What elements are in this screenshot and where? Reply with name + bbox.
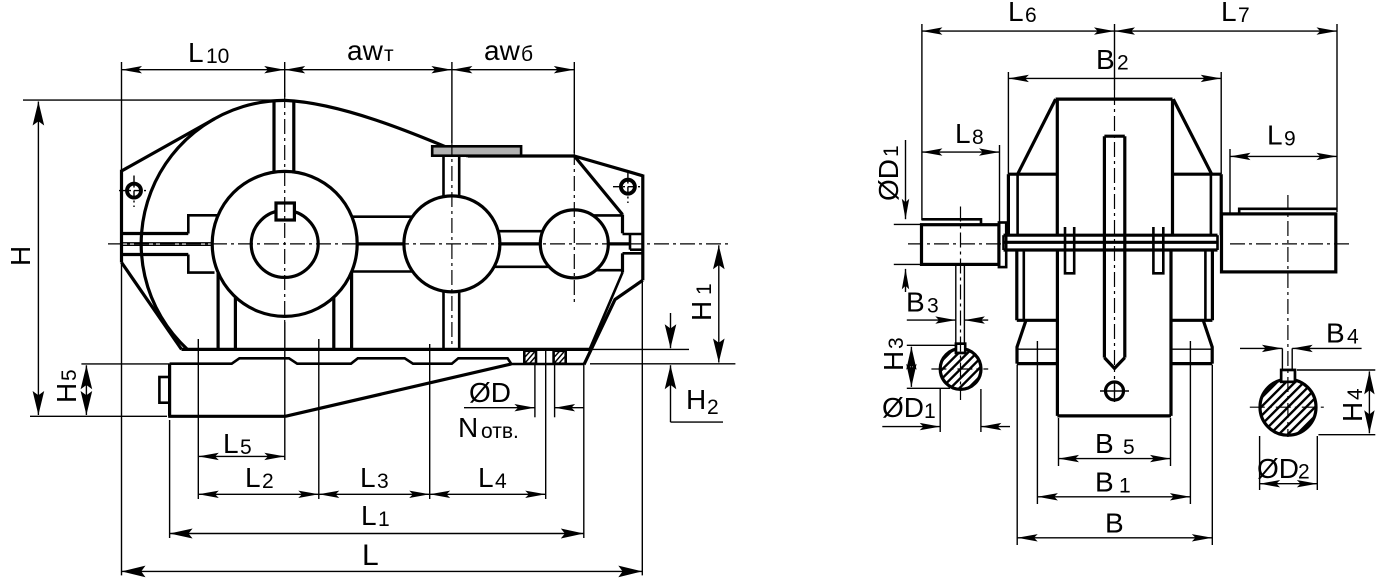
cover right gusset diagonal — [1173, 99, 1211, 174]
bore tangent line top C1-C2 — [352, 215, 413, 218]
cover left gusset diagonal — [1018, 99, 1056, 174]
extension lines right view top — [921, 24, 923, 220]
input key square overlay — [956, 344, 965, 353]
svg-text:ØD: ØD — [469, 377, 511, 408]
small bearing bore circle C3 — [540, 210, 608, 278]
dimension L — [122, 570, 643, 572]
svg-text:ØD: ØD — [882, 392, 924, 423]
svg-text:L: L — [1267, 120, 1283, 151]
central rib left side — [1103, 136, 1106, 357]
parting flange top line — [1004, 234, 1218, 237]
foundation bolt hole section right (hatched) — [554, 351, 566, 364]
foundation bolt hole section left (hatched) — [524, 351, 536, 364]
bore tangent line bottom C2-C3 — [494, 265, 549, 268]
svg-text:L: L — [188, 37, 204, 68]
right foot bottom — [1171, 362, 1212, 365]
svg-text:aw: aw — [484, 35, 521, 66]
dimension H2 arrows — [670, 313, 672, 348]
housing top slot above C1 — [272, 100, 275, 173]
dimension L10 — [122, 69, 285, 71]
dimension OD1 key section — [939, 389, 941, 432]
svg-text:H: H — [1337, 402, 1368, 422]
inner diagonal right lower — [590, 273, 623, 350]
svg-text:H: H — [686, 384, 706, 415]
svg-text:отв.: отв. — [481, 420, 519, 443]
lower body left wall inner line — [1022, 250, 1025, 320]
svg-text:5: 5 — [58, 369, 81, 381]
bore tangent line top C2-C3 — [498, 230, 543, 233]
svg-text:2: 2 — [1117, 52, 1129, 75]
svg-text:L: L — [1008, 0, 1024, 27]
svg-text:2: 2 — [1298, 461, 1310, 484]
left foot bottom — [1017, 362, 1058, 365]
pedestal left wall — [1056, 250, 1059, 416]
breather stem above C2 — [442, 156, 445, 197]
dimension OD bolt hole — [534, 364, 536, 417]
dimension B2 — [1007, 72, 1009, 174]
svg-text:3: 3 — [927, 294, 939, 317]
right inner wall face — [1210, 174, 1213, 235]
parting line right of C3 — [608, 242, 630, 245]
svg-text:N: N — [458, 412, 478, 443]
svg-text:1: 1 — [693, 283, 716, 295]
keyway square in input bore — [276, 203, 294, 220]
svg-text:L: L — [362, 539, 379, 572]
dimension L1 — [170, 533, 584, 535]
lower body right wall inner line — [1204, 250, 1207, 320]
breather stem below C2 — [442, 291, 445, 348]
parting flange right end — [1216, 235, 1219, 250]
dimension B4 key width — [1240, 347, 1282, 349]
centerline vertical C1 — [284, 93, 286, 322]
dimension OD1 shaft stub — [894, 223, 922, 225]
output shaft stub rect — [1222, 214, 1336, 272]
svg-text:7: 7 — [1238, 4, 1250, 27]
svg-text:1: 1 — [924, 400, 936, 423]
dimension L7 — [1115, 30, 1338, 32]
svg-text:L: L — [361, 500, 377, 531]
oil sump base sloped bottom — [285, 364, 511, 416]
left shoulder line — [1008, 173, 1057, 176]
dimension L3 — [319, 493, 430, 495]
svg-text:H: H — [51, 383, 82, 403]
left foot outline — [1017, 320, 1026, 363]
centerline vertical C2 — [451, 140, 453, 349]
pedestal right wall — [1169, 250, 1172, 416]
left outer wall upper — [1007, 174, 1010, 235]
svg-text:4: 4 — [495, 470, 507, 493]
left foot pad line — [1017, 348, 1057, 350]
svg-text:1: 1 — [378, 508, 390, 531]
dimension B3 key width — [907, 319, 956, 321]
svg-text:B: B — [1096, 44, 1115, 75]
right foot outline — [1203, 320, 1212, 363]
dimension H1 — [590, 363, 735, 365]
svg-text:L: L — [360, 462, 376, 493]
centerline output key section horizontal — [1250, 406, 1325, 408]
svg-text:aw: aw — [347, 35, 384, 66]
output key square — [1281, 370, 1295, 382]
housing left wall — [120, 170, 123, 263]
svg-text:B: B — [1095, 428, 1114, 459]
dimension B5 — [1059, 458, 1171, 460]
svg-text:3: 3 — [377, 470, 389, 493]
dimension L6 — [922, 30, 1115, 32]
dimension L8 — [999, 145, 1001, 225]
right view: gearbox end view — [873, 0, 1391, 545]
input bearing boss step — [188, 215, 218, 233]
right outer wall upper — [1220, 174, 1223, 235]
svg-text:L: L — [223, 428, 239, 459]
rib slot right below flange — [1153, 227, 1163, 273]
central rib right side — [1123, 136, 1126, 357]
cover box left side — [1056, 99, 1059, 235]
housing left top chamfer — [122, 119, 215, 171]
svg-text:8: 8 — [972, 126, 984, 149]
input shaft bore circle — [251, 210, 318, 277]
output key cross-section circle hatched — [1260, 379, 1316, 435]
right bearing boss step horizontal upper — [623, 233, 643, 236]
housing lower-left chamfer — [122, 262, 182, 349]
svg-text:L: L — [955, 118, 971, 149]
foundation flange notched bottom profile — [170, 358, 584, 364]
housing top curve right of apex — [285, 100, 468, 156]
svg-text:2: 2 — [707, 396, 719, 419]
cover bolt right — [621, 180, 635, 194]
bore tangent line bottom C1-C2 — [352, 270, 413, 273]
centerline horizontal main axis — [108, 243, 728, 245]
right bearing boss step horizontal lower — [623, 252, 643, 255]
right bearing boss step vertical lower — [621, 253, 624, 272]
breather cap plate — [432, 146, 521, 155]
right edge slot vertical — [629, 234, 632, 250]
right shoulder line — [1173, 173, 1222, 176]
central channel V bottom — [1104, 358, 1124, 369]
input key square — [956, 344, 965, 353]
dimension B1 — [1037, 496, 1190, 498]
centerline vertical C3 — [573, 150, 575, 302]
right bearing boss step vertical upper — [621, 215, 624, 234]
dimension L9 — [1229, 149, 1231, 214]
dimension L2 — [198, 493, 318, 495]
centerline vertical C1 extension to dimension — [284, 322, 286, 460]
boss tangent bottom right of small bore — [596, 269, 623, 272]
input shaft slot thin bottom — [122, 244, 213, 246]
right foot pad line — [1171, 348, 1212, 350]
dimension H4 key section height — [1297, 369, 1375, 371]
parting line C1-C2 — [357, 242, 404, 245]
cover top plate — [1056, 97, 1173, 100]
svg-text:B: B — [1095, 466, 1114, 497]
svg-text:4: 4 — [1344, 388, 1367, 400]
drain plug boss — [159, 377, 169, 403]
svg-text:L: L — [1221, 0, 1237, 27]
centerline vertical right view — [1114, 24, 1116, 90]
svg-text:B: B — [1326, 318, 1345, 349]
input boss slot bottom line — [122, 253, 189, 256]
centerline input key section horizontal — [931, 368, 988, 370]
input bearing collar — [999, 223, 1006, 268]
svg-text:2: 2 — [262, 470, 274, 493]
central rib cap — [1104, 135, 1124, 138]
parting flange bottom line — [1004, 248, 1218, 251]
svg-text:4: 4 — [1347, 325, 1359, 348]
svg-text:H: H — [686, 301, 717, 321]
svg-text:1: 1 — [880, 145, 903, 157]
output shaft key top line — [1239, 209, 1336, 214]
parting line C2-C3 — [500, 242, 540, 245]
oil drain hole — [1106, 382, 1124, 400]
svg-text:L: L — [478, 462, 494, 493]
cover box right side — [1171, 99, 1174, 235]
oil sump base bottom — [168, 415, 285, 418]
input shaft slot thin top — [122, 242, 213, 244]
output key stem lines — [1281, 348, 1283, 370]
svg-text:5: 5 — [240, 436, 252, 459]
dimension H3 key section height — [907, 344, 956, 346]
pedestal bottom — [1057, 414, 1171, 417]
rib below C1 right pair — [332, 297, 335, 348]
svg-text:б: б — [521, 43, 533, 66]
dimension B — [1017, 537, 1212, 539]
centerline output key section vertical — [1287, 195, 1289, 437]
svg-text:1: 1 — [1119, 474, 1131, 497]
svg-text:B: B — [906, 287, 925, 318]
svg-text:ØD: ØD — [1257, 453, 1299, 484]
housing top flat right — [468, 154, 575, 157]
dimension H5 — [81, 363, 169, 365]
housing lower-right chamfer — [584, 280, 643, 364]
svg-text:9: 9 — [1284, 128, 1296, 151]
housing right top chamfer — [574, 156, 643, 176]
middle bearing bore circle C2 — [404, 196, 500, 292]
extension lines top dimension row — [121, 62, 123, 171]
svg-text:ØD: ØD — [873, 159, 904, 201]
dimension L4 — [430, 493, 546, 495]
svg-text:H: H — [5, 246, 36, 266]
parting flange middle line — [1004, 241, 1218, 244]
left foot ledge — [1017, 319, 1058, 322]
cover bolt left — [127, 184, 141, 198]
foundation flange top line — [182, 348, 590, 351]
centerline main axis right view — [908, 243, 1006, 245]
dimension L5 — [198, 455, 284, 457]
centerline input stub vertical — [960, 207, 962, 401]
lower body left wall — [1015, 250, 1018, 320]
svg-text:H: H — [878, 351, 909, 371]
input boss slot top line — [122, 232, 189, 235]
housing right wall — [641, 175, 644, 281]
svg-text:3: 3 — [885, 337, 908, 349]
svg-text:B: B — [1105, 507, 1124, 538]
svg-text:6: 6 — [1025, 4, 1037, 27]
extension lines bottom dimension rows — [121, 262, 123, 575]
rib below C1 left pair — [217, 273, 220, 349]
housing outer arc over large gear — [141, 100, 285, 349]
parting flange left end — [1002, 235, 1005, 250]
rib slot left below flange — [1065, 227, 1074, 273]
input key stem lines — [955, 264, 957, 343]
right edge slot bottom — [630, 248, 643, 251]
right foot ledge — [1171, 319, 1212, 322]
extension lines B dimensions — [1058, 418, 1060, 466]
inner diagonal right cover joint — [574, 156, 622, 215]
left inner wall face — [1016, 174, 1019, 235]
input key cross-section circle hatched — [940, 349, 981, 390]
dimension awt — [285, 69, 452, 71]
input shaft stub rect — [922, 225, 999, 265]
input shaft key top line — [922, 219, 982, 224]
dimension OD2 key section — [1259, 436, 1261, 490]
oil sump base left edge — [168, 364, 171, 417]
boss tangent top right of small bore — [593, 214, 623, 217]
large bearing bore circle C1 — [212, 171, 357, 316]
svg-text:L: L — [245, 462, 261, 493]
dimension awb — [452, 69, 574, 71]
svg-text:т: т — [384, 43, 394, 66]
svg-text:5: 5 — [1123, 436, 1135, 459]
output key square overlay — [1281, 370, 1295, 382]
svg-text:10: 10 — [206, 45, 229, 68]
lower body right wall — [1211, 250, 1214, 320]
dimension H — [23, 99, 286, 101]
left view: gearbox housing side view — [5, 35, 735, 577]
